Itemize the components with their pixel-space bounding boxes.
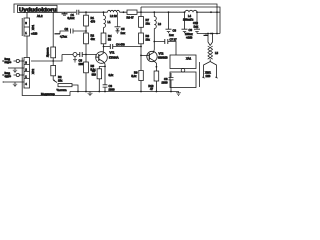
- wire base VT2: [141, 54, 149, 56]
- svg-text:С7 27: С7 27: [170, 38, 178, 42]
- node R5-rail: [85, 91, 87, 93]
- wire +12V tap down column: [52, 13, 54, 48]
- svg-text:4: 4: [25, 82, 27, 86]
- inductor L3: [154, 12, 156, 28]
- wire R8 down to base: [140, 44, 142, 56]
- box DA1: [170, 55, 196, 69]
- svg-text:1мк: 1мк: [169, 33, 174, 37]
- svg-text:Модулятор: Модулятор: [41, 92, 55, 96]
- node R1-R2: [85, 30, 87, 32]
- ground bar on output net: [204, 34, 209, 36]
- wire L3 down to collector node: [153, 29, 155, 42]
- resistor R8 lower: [51, 66, 56, 76]
- capacitor C5 shunt: [115, 27, 121, 33]
- svg-text:910: 910: [92, 73, 97, 76]
- node pot-rail: [77, 91, 79, 93]
- resistor R8: [139, 33, 144, 44]
- svg-text:1: 1: [25, 75, 27, 79]
- svg-text:VT1: VT1: [110, 51, 115, 55]
- node rail-211: [210, 11, 212, 13]
- node C4-R8: [140, 46, 142, 48]
- svg-text:10к: 10к: [146, 38, 151, 42]
- svg-text:С2: С2: [65, 27, 69, 31]
- pin circle audio: [16, 73, 19, 76]
- wire pin1 down: [26, 36, 28, 58]
- capacitor C7: [165, 39, 168, 44]
- svg-text:1000: 1000: [162, 81, 168, 85]
- svg-text:R2: R2: [58, 75, 62, 79]
- capacitor C2: [60, 29, 86, 34]
- node R8e-rail: [98, 91, 100, 93]
- svg-text:КТ306А: КТ306А: [109, 56, 119, 60]
- svg-text:VT2: VT2: [159, 52, 164, 56]
- arrow input audio: [2, 74, 16, 76]
- capacitor C8: [166, 12, 172, 33]
- svg-text:100мк: 100мк: [185, 32, 193, 36]
- capacitor C10: [194, 12, 200, 33]
- node base VT2: [140, 55, 142, 57]
- svg-text:1мк: 1мк: [121, 31, 126, 35]
- svg-text:4,7мк: 4,7мк: [60, 35, 68, 39]
- node C3-rail: [104, 91, 106, 93]
- ground at C2: [55, 33, 61, 35]
- svg-text:L5: L5: [215, 51, 218, 55]
- svg-text:R8: R8: [146, 34, 150, 38]
- wire R7-R8: [140, 27, 142, 33]
- capacitor C11: [169, 73, 174, 92]
- node rail-R7: [140, 11, 142, 13]
- inductor L2: [108, 10, 120, 12]
- connector XP1 upper shell: [21, 18, 23, 36]
- ground under pin circle: [73, 57, 77, 63]
- resistor R8e emitter: [99, 66, 105, 68]
- node emitter-rail: [156, 91, 158, 93]
- capacitor C4: [110, 44, 112, 49]
- svg-text:R5: R5: [91, 64, 95, 68]
- resistor R7: [140, 12, 142, 16]
- svg-text:аудио: аудио: [5, 75, 12, 78]
- node R9-rail: [140, 91, 142, 93]
- wire R3 to collector node: [103, 44, 105, 47]
- resistor R5: [84, 62, 89, 73]
- svg-text:12В: 12В: [206, 74, 211, 78]
- pin circle between boxes: [181, 68, 185, 72]
- svg-text:L3: L3: [158, 22, 161, 26]
- svg-text:1мк: 1мк: [194, 25, 199, 29]
- resistor R1: [85, 12, 87, 15]
- node rail-L1: [103, 11, 105, 13]
- svg-text:5,6к: 5,6к: [131, 74, 137, 78]
- svg-text:R7: R7: [146, 18, 150, 22]
- svg-text:10к: 10к: [146, 22, 151, 26]
- wire second rail: [141, 7, 220, 34]
- svg-text:С8: С8: [173, 29, 177, 33]
- wire main +12V rail: [57, 11, 220, 13]
- svg-text:R2: R2: [91, 34, 95, 38]
- wire video to divider node: [31, 60, 53, 62]
- module boundary bottom left: [22, 88, 70, 96]
- node 217-33: [216, 33, 218, 35]
- node rail-L3: [153, 11, 155, 13]
- wire base VT1: [62, 55, 99, 58]
- wire R9 to rail: [140, 81, 142, 92]
- inductor L4: [185, 10, 197, 12]
- svg-text:С5: С5: [79, 59, 83, 63]
- wire R5 to ground rail: [85, 73, 87, 92]
- node after L2: [123, 11, 125, 13]
- potentiometer R11: [58, 84, 72, 87]
- svg-text:С9: С9: [189, 28, 193, 32]
- capacitor C9: [182, 12, 188, 33]
- svg-text:3: 3: [25, 61, 27, 65]
- resistor R10 emitter: [154, 71, 159, 81]
- wire R8 down to pot: [52, 76, 54, 80]
- transistor VT2: [147, 51, 157, 61]
- svg-text:100: 100: [79, 62, 84, 66]
- svg-text:R4: R4: [108, 34, 112, 38]
- svg-text:С8: С8: [164, 77, 168, 81]
- pin circle on base wire: [73, 53, 77, 57]
- wire base column down: [140, 55, 142, 70]
- svg-text:47: 47: [150, 87, 153, 91]
- wire pin3 up: [26, 12, 28, 18]
- inductor L5: [208, 34, 213, 46]
- svg-text:ХW1: ХW1: [205, 71, 211, 75]
- svg-text:R1: R1: [91, 16, 95, 20]
- wire pot to rail: [72, 85, 78, 92]
- wire collector to C7: [154, 42, 176, 56]
- node rail-C8: [168, 11, 170, 13]
- node rail-C9: [184, 11, 186, 13]
- wire shield audio: [4, 81, 24, 83]
- svg-text:+12В: +12В: [31, 31, 38, 35]
- connector lower shell: [21, 58, 23, 89]
- node collector VT2: [153, 41, 155, 43]
- wire R4 node to base net: [53, 55, 62, 66]
- wire video to pin3: [19, 60, 24, 62]
- svg-text:3: 3: [25, 21, 27, 25]
- wire R10 to rail: [155, 81, 157, 92]
- pin circle video: [16, 59, 19, 62]
- svg-text:15к: 15к: [58, 79, 63, 83]
- svg-text:56: 56: [108, 38, 111, 42]
- resistor R3: [101, 33, 106, 44]
- node rail-R1: [85, 11, 87, 13]
- node VT2 emitter: [156, 66, 158, 68]
- svg-text:ХР2: ХР2: [31, 68, 35, 74]
- capacitor C1: [77, 10, 79, 15]
- ground symbol on rail: [88, 92, 93, 96]
- wire 217 down: [216, 12, 218, 33]
- svg-text:470: 470: [91, 20, 96, 24]
- node 211: [210, 33, 212, 35]
- svg-text:С5: С5: [121, 27, 125, 31]
- wire L1-R3: [103, 28, 105, 34]
- node VT1 emitter: [104, 66, 106, 68]
- svg-text:Яркость: Яркость: [46, 47, 50, 57]
- node rail-217: [216, 11, 218, 13]
- svg-text:С10: С10: [193, 21, 198, 25]
- svg-text:6,8к: 6,8к: [109, 74, 114, 77]
- wire R8e to rail: [98, 79, 100, 92]
- box lower module: [170, 72, 196, 88]
- svg-text:×16В: ×16В: [186, 36, 193, 40]
- svg-text:S2001В: S2001В: [158, 56, 168, 60]
- node collector VT1: [103, 46, 105, 48]
- svg-text:С4 470: С4 470: [116, 43, 125, 47]
- svg-text:А1.2: А1.2: [37, 14, 43, 18]
- svg-text:R9: R9: [134, 71, 138, 75]
- svg-text:Uydudoktoru: Uydudoktoru: [19, 7, 57, 13]
- svg-text:1: 1: [25, 31, 27, 35]
- svg-text:0,1мк: 0,1мк: [68, 16, 76, 20]
- node base-R5: [85, 54, 87, 56]
- wire audio to pin1: [19, 74, 24, 76]
- svg-text:1000: 1000: [109, 87, 115, 91]
- wire R1-R2: [85, 26, 87, 33]
- wire ground rail bottom: [70, 92, 179, 93]
- inductor L1: [104, 12, 106, 27]
- resistor R9: [139, 71, 144, 81]
- node rail-C10: [196, 11, 198, 13]
- svg-text:L1: L1: [108, 20, 111, 24]
- ground shield audio: [13, 82, 17, 87]
- node L5 right: [212, 33, 214, 35]
- wire down to R5: [85, 55, 87, 63]
- resistor R6: [127, 10, 137, 14]
- node under R4: [52, 60, 54, 62]
- antenna XW1 symbol: [202, 59, 217, 78]
- svg-text:ХА1: ХА1: [186, 57, 192, 61]
- wire collector to C4: [104, 46, 142, 48]
- wire R2 down to base node: [85, 44, 87, 55]
- resistor R2: [84, 33, 89, 44]
- ground rail end: [176, 93, 181, 96]
- wire top frame rail: [14, 4, 217, 13]
- svg-text:L4: L4: [188, 14, 191, 18]
- capacitor C3 in emitter leg: [103, 66, 108, 91]
- svg-text:видео: видео: [5, 61, 12, 64]
- capacitor C5b on base wire: [80, 52, 82, 57]
- svg-text:L2 10: L2 10: [110, 14, 117, 18]
- svg-text:2: 2: [25, 68, 27, 72]
- svg-text:С3: С3: [109, 84, 113, 88]
- svg-text:R6 47: R6 47: [127, 16, 135, 20]
- wire output net y33.5: [197, 33, 220, 35]
- resistor R4 with rotated label: [51, 47, 56, 58]
- ground at C1: [64, 12, 66, 13]
- svg-text:43к: 43к: [91, 37, 96, 41]
- svg-text:Частота: Частота: [57, 88, 67, 92]
- ground shield video: [13, 68, 17, 73]
- wire shield video: [8, 67, 24, 69]
- wire right drop: [199, 62, 201, 87]
- node L5 left: [207, 33, 209, 35]
- svg-text:ХР1: ХР1: [31, 24, 35, 30]
- arrow input video: [2, 60, 16, 62]
- transistor VT1: [96, 52, 108, 64]
- title box: [18, 5, 58, 12]
